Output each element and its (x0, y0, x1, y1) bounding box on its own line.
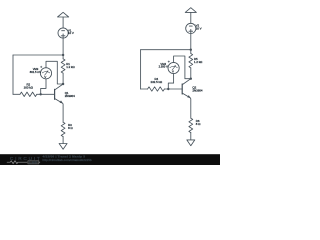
resistor R2 (13, 92, 55, 96)
voltage source V1 (58, 28, 68, 38)
node junction top (62, 54, 64, 56)
label R2 100 k (24, 82, 34, 89)
bottom bar (0, 154, 220, 165)
node base junction (40, 93, 42, 95)
wire left rail right circuit (140, 50, 142, 89)
svg-text:1.2 kΩ: 1.2 kΩ (194, 60, 203, 64)
svg-text:2.300 V: 2.300 V (159, 65, 168, 69)
label R6 8 ohm (196, 119, 201, 126)
svg-text:2N3904: 2N3904 (192, 89, 203, 93)
svg-text:232.5 kΩ: 232.5 kΩ (150, 80, 162, 84)
label R5 1.2 k (194, 57, 203, 64)
wire V1 to node (62, 38, 64, 55)
voltmeter VM4 (168, 61, 179, 74)
transistor Q1 2N3904 (55, 84, 64, 122)
label VM4 2.300 V (159, 62, 168, 69)
power flag V2 supply (185, 8, 196, 24)
resistor R6 (189, 118, 193, 139)
resistor R4 (141, 87, 183, 91)
svg-text:1.2 kΩ: 1.2 kΩ (66, 65, 75, 69)
node collector junction (62, 83, 64, 85)
label R1 1.2 k (66, 62, 75, 69)
svg-text:10 V: 10 V (196, 27, 202, 31)
label R3 8 ohm (68, 123, 73, 130)
svg-text:100 kΩ: 100 kΩ (24, 85, 34, 89)
resistor R3 (61, 122, 65, 143)
wire top horizontal right (141, 49, 191, 51)
power flag V1 supply (58, 12, 69, 28)
node base junction right (167, 88, 169, 90)
label Q2 2N3904 (192, 86, 203, 93)
wire VM4 bottom lead to base (168, 74, 173, 89)
ground symbol left (59, 144, 67, 150)
transistor Q2 2N3904 (182, 79, 191, 119)
svg-text:V: V (44, 75, 47, 79)
CircuitLab logo (7, 156, 42, 165)
voltmeter VM3 (40, 66, 51, 79)
resistor R1 (61, 55, 65, 84)
label V1 10 V (68, 28, 74, 35)
wire VM3 bottom lead to base (41, 79, 46, 94)
ground symbol right (187, 140, 195, 146)
svg-text:8 Ω: 8 Ω (196, 122, 201, 126)
label R4 232.5 k (150, 77, 162, 84)
label VM3 801.5 mV (30, 67, 42, 74)
svg-text:LAB: LAB (29, 161, 37, 165)
label Q1 2N3904 (65, 91, 76, 98)
svg-text:801.5 mV: 801.5 mV (30, 70, 42, 74)
wire VM4 top lead to collector (174, 56, 191, 79)
voltage source V2 (186, 23, 196, 33)
svg-text:10 V: 10 V (68, 31, 74, 35)
svg-text:V: V (172, 70, 175, 74)
node collector junction right (190, 78, 192, 80)
node junction top right (190, 49, 192, 51)
svg-text:8 Ω: 8 Ω (68, 126, 73, 130)
wire VM3 top lead to collector (46, 61, 63, 84)
wire left rail (12, 55, 14, 94)
resistor R5 (189, 50, 193, 79)
wire V2 to node (190, 34, 192, 50)
label V2 10 V (196, 24, 202, 31)
svg-text:2N3904: 2N3904 (65, 94, 76, 98)
wire top horizontal (13, 54, 63, 56)
svg-text:http:/⁄circuitlab.com/c/4abn3k: http:/⁄circuitlab.com/c/4abn3k2z25b (43, 158, 92, 162)
